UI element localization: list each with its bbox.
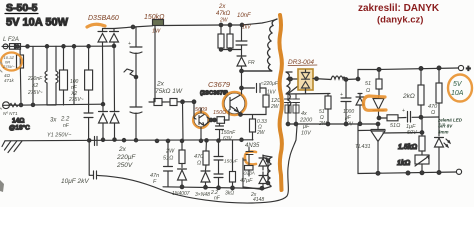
TL431 <box>371 124 385 173</box>
svg-text:75kΩ 1W: 75kΩ 1W <box>155 88 183 95</box>
node L-5 <box>72 45 75 48</box>
resistor 2k <box>420 69 422 118</box>
node sec gnd 1 <box>286 122 290 126</box>
dummy load resistor 51R <box>378 70 380 97</box>
svg-text:⊙23Λ: ⊙23Λ <box>243 171 255 176</box>
label 5V 10A orange circle <box>448 75 472 102</box>
svg-text:471k: 471k <box>4 78 15 83</box>
svg-text:2W: 2W <box>219 18 229 24</box>
svg-text:ŠÍŘ 8V: ŠÍŘ 8V <box>438 122 453 129</box>
wire bridge legs <box>103 46 115 112</box>
potentiometer 1k <box>415 155 429 164</box>
svg-text:Nº NT1: Nº NT1 <box>3 111 18 116</box>
startup resistor 47k no.2 <box>221 25 242 50</box>
node aux d2 <box>266 181 269 184</box>
node bot bus 3 <box>420 171 424 175</box>
svg-text:10A: 10A <box>451 90 464 97</box>
node gnd bus G <box>199 139 202 142</box>
resistor 1.5k <box>421 117 423 155</box>
transformer secondary winding <box>286 72 292 112</box>
capacitor 47nF drive <box>164 141 173 187</box>
snubber diode FR <box>237 56 272 76</box>
choke winding a <box>45 46 47 105</box>
svg-text:51: 51 <box>365 81 371 87</box>
wire column74 <box>73 46 75 104</box>
svg-text:2kΩ: 2kΩ <box>402 93 415 100</box>
varistor RV1 <box>17 55 24 68</box>
resistor 12R 2W <box>263 95 269 107</box>
node emitter <box>239 113 243 117</box>
node drive rail end <box>260 186 264 190</box>
node 150R left2 <box>213 118 217 122</box>
svg-text:4x: 4x <box>301 111 307 117</box>
terminal O+ <box>458 65 463 70</box>
node collector top <box>240 69 244 73</box>
node L2 out <box>344 78 348 82</box>
svg-text:+: + <box>128 41 131 47</box>
svg-text:X2: X2 <box>31 83 38 89</box>
snubber cap 220n tap <box>240 86 244 90</box>
node bridge neg 2 <box>113 138 116 141</box>
node L-2 <box>26 45 29 48</box>
orange underline swoosh <box>87 24 105 27</box>
svg-text:TL431: TL431 <box>355 144 371 150</box>
node bulk mid <box>134 75 137 78</box>
node N-bridge <box>101 103 104 106</box>
resistor 470R drive <box>206 140 207 170</box>
wire isolation swoosh <box>99 126 297 203</box>
svg-text:(danyk.cz): (danyk.cz) <box>377 15 423 26</box>
transistor Q1 orange highlight <box>223 92 246 115</box>
zener orange highlight horseshoe <box>364 96 387 110</box>
node N-1 <box>19 103 22 106</box>
node gnd bus F <box>180 139 183 142</box>
svg-text:1W: 1W <box>152 29 161 35</box>
svg-text:150kΩ: 150kΩ <box>144 14 165 21</box>
filter cap 1 <box>285 94 292 124</box>
svg-text:+: + <box>340 92 343 98</box>
node sec gnd 5 <box>344 122 348 126</box>
capacitor aux <box>243 147 253 187</box>
svg-text:FR: FR <box>248 60 255 66</box>
wire feedback row <box>379 117 439 118</box>
node 47k join 1 <box>219 48 222 51</box>
wire second column <box>32 46 34 105</box>
transformer primary winding <box>242 19 278 71</box>
svg-text:2.2: 2.2 <box>60 117 70 123</box>
wire sec ground bus <box>288 123 378 125</box>
svg-text:51Ω: 51Ω <box>163 156 173 162</box>
node L-6 <box>87 45 90 48</box>
transformer aux winding <box>243 156 272 190</box>
svg-text:2W: 2W <box>256 130 266 136</box>
svg-text:3mm: 3mm <box>438 130 449 135</box>
ground symbol <box>2 141 22 153</box>
svg-text:≈220μF: ≈220μF <box>261 81 279 87</box>
svg-text:150Ω: 150Ω <box>213 110 226 116</box>
capacitor X2 220nF <box>63 46 65 105</box>
capacitor X2 100nF <box>88 46 90 113</box>
svg-text:250V: 250V <box>116 162 133 169</box>
terminal O- <box>456 169 461 174</box>
svg-text:F: F <box>153 179 157 185</box>
svg-text:2200: 2200 <box>299 118 313 124</box>
node gnd bus I <box>217 139 220 142</box>
transistor Q1 2SC3679 <box>224 93 245 114</box>
node DR out <box>315 77 319 81</box>
node bot bus 1 <box>376 171 380 175</box>
capacitor 1uF 50V <box>408 112 411 123</box>
svg-text:470: 470 <box>194 154 204 160</box>
wire TL431 ref <box>383 132 422 135</box>
node aux d1 <box>266 159 269 162</box>
svg-text:51Ω: 51Ω <box>390 123 400 129</box>
LED green <box>435 138 451 172</box>
wire Q2 base <box>194 102 196 119</box>
transistor Q2 orange highlight <box>193 112 209 128</box>
node base row 2 <box>192 100 196 104</box>
doubler link zigzag <box>124 69 136 77</box>
Y-capacitor 10nF 2kV <box>89 140 99 179</box>
node gnd bus A <box>88 139 91 142</box>
node top bus 4 <box>240 23 244 27</box>
varistor orange highlight <box>1 53 22 71</box>
node drive rail 4 <box>231 186 235 190</box>
node N-2 <box>31 103 34 106</box>
node sec gnd 4 <box>326 122 330 126</box>
resistor 51R out <box>327 94 329 125</box>
svg-text:10V: 10V <box>301 131 312 137</box>
node out bus 3 <box>437 66 441 70</box>
node gnd bus H <box>205 139 208 142</box>
svg-text:275V~: 275V~ <box>27 90 43 96</box>
wire emitter to 0.33R <box>241 107 267 119</box>
capacitor bank wire <box>286 80 346 95</box>
node out bus 1 <box>377 68 381 72</box>
node L-bridge <box>112 44 115 47</box>
node gnd bus B <box>122 139 125 142</box>
svg-text:10nF: 10nF <box>237 13 251 19</box>
svg-text:+: + <box>466 64 471 73</box>
svg-text:5V 10A 50W: 5V 10A 50W <box>6 17 69 29</box>
svg-text:3kΩ: 3kΩ <box>225 191 234 197</box>
resistor 0.33R <box>250 119 256 132</box>
node 47k join 2 <box>228 48 231 51</box>
svg-text:220nF: 220nF <box>27 76 43 82</box>
capacitor 150nF 63V <box>216 123 224 140</box>
node drive rail 2 <box>204 186 208 190</box>
filter cap bank boxes <box>285 105 291 113</box>
aux rectifier diode 1 <box>259 155 268 170</box>
resistor 51R 2W <box>181 141 183 168</box>
transformer core orange <box>279 15 281 190</box>
svg-text:S-50-5: S-50-5 <box>6 2 38 14</box>
node sec tap <box>289 77 293 81</box>
startup drop wire <box>154 26 156 102</box>
svg-text:63V: 63V <box>223 136 233 142</box>
wire divider down <box>182 102 185 141</box>
wire TL431 left stub <box>358 129 371 131</box>
svg-text:2W: 2W <box>165 149 175 155</box>
svg-text:Ω: Ω <box>197 161 201 167</box>
svg-text:zakreslil: DANYK: zakreslil: DANYK <box>358 3 440 14</box>
svg-text:220μF: 220μF <box>116 154 136 161</box>
thermistor NTC NT1 <box>3 102 10 109</box>
svg-text:3×N48: 3×N48 <box>195 192 210 198</box>
resistor 470R led <box>438 68 440 136</box>
svg-text:μF: μF <box>344 115 352 121</box>
bulk capacitor C1b <box>130 77 142 140</box>
wire secondary out <box>313 79 331 80</box>
svg-text:4N35: 4N35 <box>245 143 260 149</box>
resistor 0.22R aux <box>245 166 254 171</box>
svg-text:Ω: Ω <box>431 110 435 116</box>
capacitor 2.2nF <box>214 174 223 188</box>
filter cap 2 <box>293 94 300 124</box>
series cap on bus <box>95 137 98 146</box>
wire collector to bus <box>241 76 243 94</box>
svg-text:Y1 250V~: Y1 250V~ <box>47 133 72 139</box>
svg-text:nF: nF <box>63 123 70 129</box>
zener crowbar <box>373 96 384 118</box>
snubber capacitor 10n 1kV <box>236 25 247 56</box>
wire primary ground bus <box>5 140 253 141</box>
svg-text:C3679: C3679 <box>208 80 231 89</box>
node gnd bus D <box>155 139 158 142</box>
svg-text:10μF 2kV: 10μF 2kV <box>61 178 89 185</box>
bridge bottom diode 1 <box>99 112 108 140</box>
node base row 1 <box>181 100 185 104</box>
fuse F2A <box>3 44 8 49</box>
wire bottom out bus <box>358 124 456 174</box>
title underline <box>5 13 38 15</box>
svg-text:2W: 2W <box>270 104 280 110</box>
svg-text:Ω: Ω <box>366 88 370 94</box>
bridge bottom diode 2 <box>110 112 119 140</box>
wire AC N line <box>3 104 103 105</box>
resistor 51R feedback <box>387 115 398 121</box>
aux rectifier diode 2 <box>259 160 268 188</box>
node sec gnd 6 <box>376 122 380 126</box>
bulk capacitor C1a <box>130 27 142 77</box>
svg-text:2x: 2x <box>218 4 226 10</box>
node L-4 <box>62 45 65 48</box>
svg-text:1kV: 1kV <box>242 25 251 31</box>
node gnd bus C <box>134 139 137 142</box>
svg-text:47μF: 47μF <box>240 178 253 184</box>
wire to riser <box>345 78 358 81</box>
capacitor 150nF mid <box>214 141 223 174</box>
bridge top diode 1 <box>98 29 107 47</box>
zener diode drive <box>201 171 210 187</box>
svg-text:275V~: 275V~ <box>68 97 84 103</box>
zener out <box>356 94 364 125</box>
svg-text:1kΩ: 1kΩ <box>397 160 411 167</box>
node top bus 1 <box>131 25 135 29</box>
svg-text:2x: 2x <box>118 146 127 153</box>
resistor 3k <box>232 140 234 188</box>
svg-text:1.5kΩ: 1.5kΩ <box>398 144 418 151</box>
wire secondary taps <box>288 79 298 93</box>
node 150R left <box>209 118 213 122</box>
svg-text:5V: 5V <box>453 81 463 88</box>
node L-var <box>16 45 19 48</box>
base resistors 2x75k row <box>149 101 194 103</box>
capacitor Y1 <box>84 113 93 140</box>
node bridge neg 1 <box>101 138 104 141</box>
svg-text:zelená LED: zelená LED <box>437 118 463 123</box>
node riser <box>356 77 360 81</box>
node bot bus 4 <box>437 171 441 175</box>
svg-text:150μF: 150μF <box>224 159 239 165</box>
choke winding b <box>47 46 58 105</box>
resistor 150k body <box>153 20 164 26</box>
node gnd bus J <box>240 138 243 141</box>
node top bus 3 <box>228 23 232 27</box>
transistor Q2 driver <box>194 113 208 127</box>
node feedback row <box>377 116 381 120</box>
wire drive bottom rail <box>163 187 262 189</box>
svg-text:14Ω: 14Ω <box>12 118 24 125</box>
svg-text:3x: 3x <box>50 118 57 124</box>
startup resistor 47k no.1 <box>220 25 222 50</box>
node drive rail 1 <box>180 185 184 189</box>
capacitor 1000uF <box>341 94 351 125</box>
node sec gnd 2 <box>294 122 298 126</box>
node out bus 2 <box>419 67 423 71</box>
svg-text:+: + <box>402 108 405 114</box>
wire DC+ top bus <box>103 19 278 29</box>
resistor 150R <box>211 110 229 120</box>
node ref <box>420 131 424 135</box>
rectifier DR3-004 <box>298 69 313 90</box>
opto area orange C highlight <box>245 152 256 165</box>
varistor branch wire <box>20 46 21 105</box>
svg-text:275V~: 275V~ <box>2 64 15 69</box>
svg-text:nF: nF <box>214 196 221 202</box>
svg-text:2x: 2x <box>156 81 165 88</box>
wire output top bus <box>358 68 458 79</box>
node fb 2k <box>419 115 423 119</box>
node bot bus 2 <box>406 171 410 175</box>
svg-text:L F2A: L F2A <box>3 37 19 43</box>
bridge top diode 2 <box>110 29 119 47</box>
wire Q2 emitter down <box>201 108 211 141</box>
svg-text:@18°C: @18°C <box>9 124 30 132</box>
svg-text:47kΩ: 47kΩ <box>216 11 231 17</box>
node drive rail 3 <box>217 186 221 190</box>
svg-text:(2SC3679): (2SC3679) <box>200 91 228 97</box>
filter inductor L2 <box>331 76 345 80</box>
diode 1N4007 <box>178 169 187 187</box>
node sec gnd 3 <box>358 122 362 126</box>
svg-text:μF: μF <box>302 124 310 130</box>
node top bus 2 <box>219 23 223 27</box>
svg-text:D3SBA60: D3SBA60 <box>88 15 119 22</box>
node L-3 <box>45 45 48 48</box>
wire AC L line <box>2 45 114 47</box>
node gnd bus E <box>166 139 169 142</box>
